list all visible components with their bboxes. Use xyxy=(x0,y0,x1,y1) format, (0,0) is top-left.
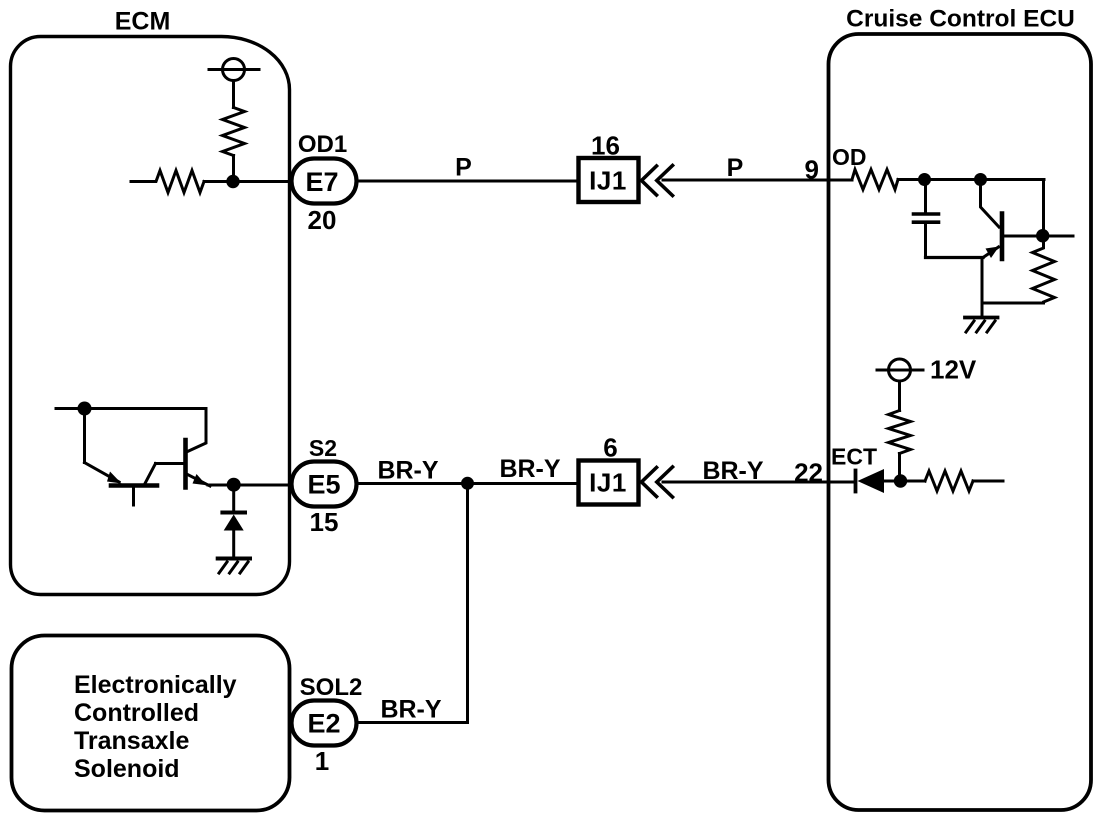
junction connector IJ1 (6) xyxy=(579,461,639,505)
svg-text:P: P xyxy=(727,154,744,182)
resistor (OD input) xyxy=(852,170,898,190)
wire xyxy=(973,480,1003,483)
connector E2 xyxy=(292,701,357,746)
Electronically Controlled Transaxle Solenoid box xyxy=(12,636,290,811)
svg-text:20: 20 xyxy=(308,205,337,235)
junction connector IJ1 (16) xyxy=(579,158,639,202)
wire xyxy=(83,409,86,463)
node (OD1 junction) xyxy=(226,175,239,188)
wire (Q2 collector to Q3 base) xyxy=(156,462,184,465)
svg-text:16: 16 xyxy=(591,131,620,161)
ground (E5 clamp) xyxy=(218,557,250,561)
svg-text:ECM: ECM xyxy=(115,8,171,36)
wire (ECM darlington top rail) xyxy=(56,407,206,410)
wire (bottom rail) xyxy=(982,302,1044,305)
transistor Q1 (cruise OD output) xyxy=(1000,214,1005,260)
svg-text:6: 6 xyxy=(603,433,617,463)
svg-text:1: 1 xyxy=(315,746,329,776)
wire xyxy=(926,256,984,259)
wire (emitter down) xyxy=(981,258,984,318)
capacitor xyxy=(924,180,927,213)
chevron arrows (16) xyxy=(642,166,657,195)
transistor Q2 (ECM left, PNP) xyxy=(85,463,120,483)
svg-text:BR-Y: BR-Y xyxy=(499,455,560,483)
wire (junction down to E2) xyxy=(357,483,468,722)
svg-text:OD: OD xyxy=(832,144,867,170)
node (base node) xyxy=(1036,229,1049,242)
node (E5 junction) xyxy=(227,478,241,492)
svg-text:IJ1: IJ1 xyxy=(589,468,627,498)
svg-text:OD1: OD1 xyxy=(298,131,347,158)
svg-text:22: 22 xyxy=(794,458,823,488)
chevron arrows (6) xyxy=(642,468,657,497)
connector E5 xyxy=(292,462,357,507)
ground (Q1 emitter) xyxy=(965,316,998,320)
connector E7 xyxy=(292,159,357,204)
svg-text:15: 15 xyxy=(310,507,339,537)
node (BR-Y junction) xyxy=(461,477,474,490)
Cruise Control ECU box xyxy=(829,34,1092,810)
wire xyxy=(884,480,925,483)
svg-text:BR-Y: BR-Y xyxy=(380,696,441,724)
svg-text:SOL2: SOL2 xyxy=(300,674,363,701)
wire BR-Y (IJ1-6 to diode) xyxy=(663,481,854,484)
power symbol 12V xyxy=(889,359,911,381)
svg-text:E5: E5 xyxy=(307,470,340,500)
svg-text:12V: 12V xyxy=(930,355,977,385)
wire xyxy=(898,454,901,482)
wire P (E7 to IJ1) xyxy=(357,180,579,183)
svg-text:Electronically: Electronically xyxy=(74,671,237,699)
diode (E5 clamp) xyxy=(232,485,235,510)
node xyxy=(974,173,987,186)
wire xyxy=(208,484,292,487)
node (rail) xyxy=(78,402,92,416)
wire xyxy=(232,156,235,182)
wire xyxy=(898,381,901,411)
diode (ECT input) xyxy=(854,471,858,492)
svg-text:ECT: ECT xyxy=(831,444,877,470)
wire BR-Y (E5 to junction) xyxy=(357,482,579,485)
resistor (emitter-base bias) xyxy=(1033,242,1055,303)
wire xyxy=(232,81,235,108)
svg-text:Cruise Control ECU: Cruise Control ECU xyxy=(846,6,1075,33)
wire P (IJ1 to pin 9) xyxy=(663,179,852,182)
svg-text:P: P xyxy=(455,154,472,182)
transistor Q3 (ECM right, NPN) xyxy=(183,440,188,488)
svg-text:Controlled: Controlled xyxy=(74,699,199,727)
svg-text:Solenoid: Solenoid xyxy=(74,755,180,783)
svg-text:Transaxle: Transaxle xyxy=(74,727,189,755)
resistor (ECM series, horizontal) xyxy=(131,171,204,193)
svg-text:E7: E7 xyxy=(305,167,338,197)
svg-text:E2: E2 xyxy=(307,709,340,739)
wire xyxy=(204,180,292,183)
resistor (12V pull-up) xyxy=(889,411,911,454)
svg-text:BR-Y: BR-Y xyxy=(702,457,763,485)
resistor (ECT series) xyxy=(925,471,973,491)
ECM box xyxy=(11,37,290,595)
svg-text:IJ1: IJ1 xyxy=(589,166,627,196)
svg-text:9: 9 xyxy=(805,155,819,185)
wire xyxy=(898,178,1044,181)
node (ECT junction) xyxy=(894,474,907,487)
power symbol B+ (ECM) xyxy=(223,59,245,81)
wire (collector rail down to base node) xyxy=(1042,180,1045,236)
svg-text:BR-Y: BR-Y xyxy=(377,457,438,485)
svg-text:S2: S2 xyxy=(309,435,337,461)
resistor (ECM pull-up, vertical) xyxy=(223,108,245,156)
node xyxy=(918,173,931,186)
